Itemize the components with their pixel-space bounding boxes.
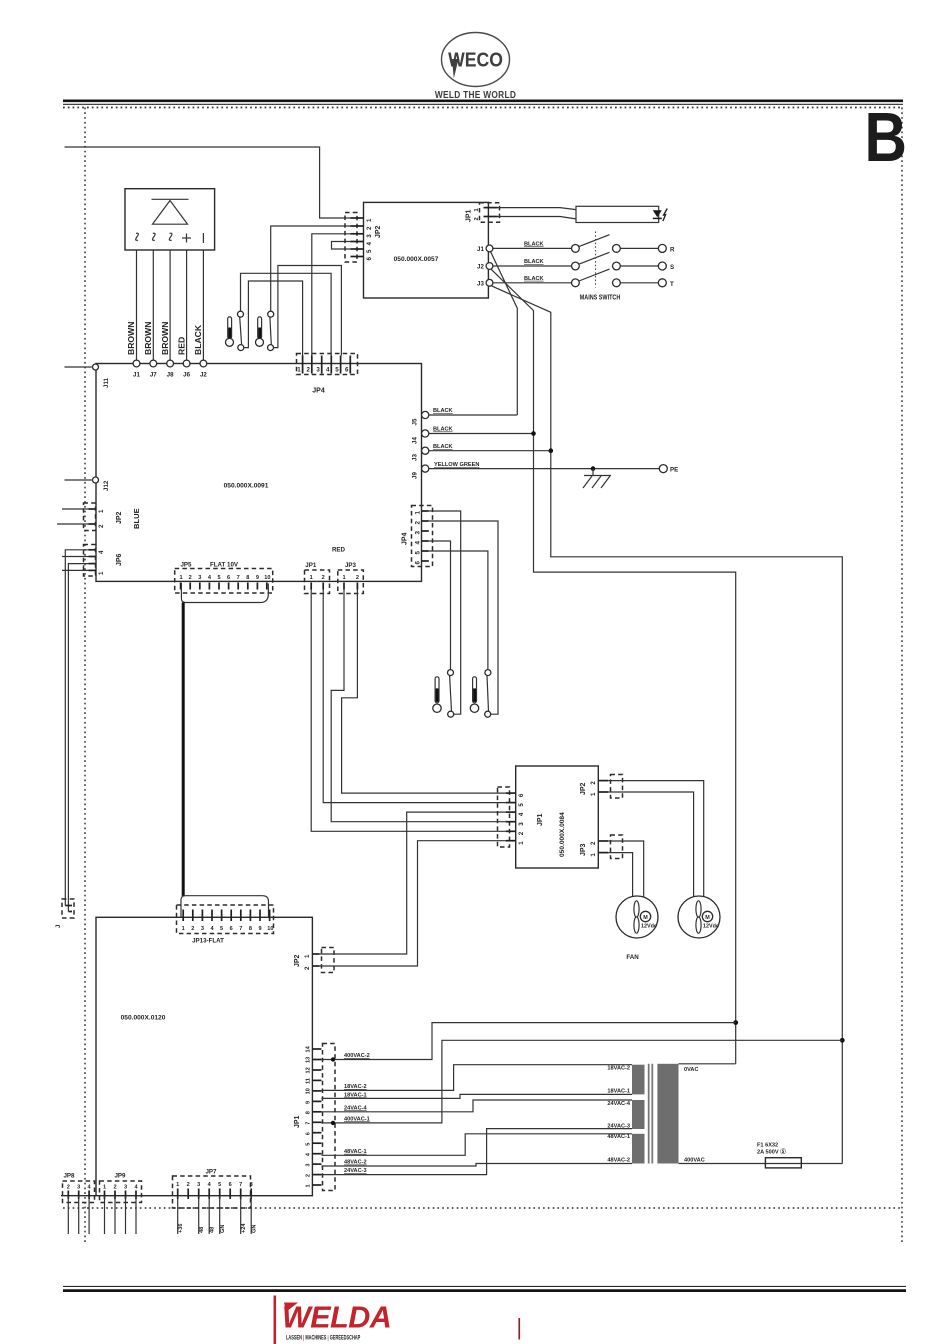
wire J2-0057 down to 0VAC riser [491,269,736,1064]
wire J3-0057 down to 400VAC riser [491,286,843,1164]
svg-text:2: 2 [415,521,422,525]
thermal switch ST2 thermometer [256,317,264,346]
svg-text:4: 4 [415,541,422,545]
wire 24VAC-4 [321,1100,632,1112]
terminal S [620,265,658,267]
svg-text:B: B [865,97,907,176]
wire JP2-0091 pin2 stub [57,523,89,525]
svg-text:5: 5 [218,1182,221,1188]
wire JP6 pin1 to left bundle [62,569,89,571]
svg-text:5: 5 [335,367,339,374]
svg-text:JP2: JP2 [116,511,123,524]
ribbon cable JP5 to JP13 [182,603,185,897]
svg-text:2: 2 [366,226,373,230]
terminal J2 board0057 right [486,263,493,270]
red fold mark center bottom [518,1318,520,1340]
fan M2 [678,896,720,938]
svg-text:2: 2 [356,575,359,581]
svg-text:YELLOW GREEN: YELLOW GREEN [434,462,479,468]
jumper loop JP2-0057 pins4-5 [332,242,355,250]
svg-text:J: J [55,924,62,928]
svg-text:1: 1 [590,853,597,857]
connector JP2 board0057 left [345,213,357,263]
wire 48VAC-1 [321,1134,632,1156]
connector JP2 board0120 right [322,948,335,973]
svg-text:18VAC-1: 18VAC-1 [344,1092,367,1098]
wire J2 to switch pole S [493,265,572,267]
svg-text:050.000X.0084: 050.000X.0084 [559,812,566,857]
svg-text:WELD THE WORLD: WELD THE WORLD [435,89,516,100]
svg-text:JP2: JP2 [294,954,301,967]
svg-text:6: 6 [415,561,422,565]
svg-text:1: 1 [98,509,105,513]
svg-text:BLACK: BLACK [193,324,203,355]
wire 400VAC through fuse [679,1163,843,1165]
mains switch linkage dotted [595,232,597,288]
connector JP6 board0091 left [89,550,97,571]
svg-text:J7: J7 [150,372,157,379]
thermal switch ST3 contact [448,670,454,676]
svg-text:2: 2 [306,1174,312,1177]
svg-text:2: 2 [322,575,325,581]
svg-text:400VAC-1: 400VAC-1 [344,1116,370,1122]
svg-text:J12: J12 [103,480,110,491]
svg-text:J3: J3 [477,280,484,287]
ground symbol PE [583,469,611,488]
svg-text:6: 6 [230,926,233,932]
svg-text:JP3: JP3 [580,843,587,856]
svg-text:5: 5 [220,926,223,932]
wire J9 YELLOW GREEN to PE [429,468,660,470]
svg-text:18VAC-1: 18VAC-1 [607,1088,630,1094]
svg-text:J1: J1 [477,246,484,253]
wire J3 BLACK [429,450,551,452]
transformer T1 secondary winding 18VAC [632,1065,645,1095]
svg-text:2: 2 [474,217,480,220]
svg-text:F1 6X32: F1 6X32 [757,1143,778,1149]
svg-text:JP4: JP4 [402,532,409,545]
winding labels [607,1066,630,1164]
junction dot 400VAC-2 join [733,1020,738,1025]
svg-text:4: 4 [98,550,105,554]
svg-text:9: 9 [256,575,259,581]
svg-text:JP3: JP3 [345,562,357,569]
wire 0VAC to riser [679,1063,736,1065]
svg-text:J3: J3 [412,454,419,461]
connector JP1 board0091 bottom [305,570,330,594]
svg-text:BLACK: BLACK [433,444,453,450]
svg-text:10: 10 [264,575,270,581]
svg-text:JP4: JP4 [312,388,325,395]
svg-text:JP1: JP1 [466,209,473,222]
svg-text:24VAC-4: 24VAC-4 [344,1105,367,1111]
svg-text:RED: RED [332,547,346,554]
thermal switch ST3 thermometer [433,677,441,713]
wire 48VAC-2 [321,1164,632,1167]
svg-text:10: 10 [267,926,273,932]
mains switch pole S [572,262,580,270]
board0120 bottom edge extension [61,1195,96,1197]
wire JP4right pin5 to ST4 upper [429,551,488,670]
wire mains input to JP2-0057 pin1 [65,147,351,218]
svg-text:BLACK: BLACK [433,408,453,414]
svg-text:JP7: JP7 [205,1169,217,1176]
page dotted border bottom [63,1207,903,1209]
svg-text:2: 2 [590,781,597,785]
indicator lamp H1 [576,206,659,222]
svg-text:J1: J1 [133,372,140,379]
svg-text:3: 3 [77,1185,80,1191]
wire rectifier minus to J2 [202,250,204,360]
svg-text:5: 5 [415,551,422,555]
wire 0084 JP2 pin1 to fan M2 [608,792,693,898]
svg-text:3: 3 [306,1163,312,1166]
svg-text:0VAC: 0VAC [684,1067,699,1073]
svg-text:6: 6 [366,257,373,261]
svg-text:JP8: JP8 [63,1173,75,1180]
svg-text:J11: J11 [103,377,110,388]
wire JP3-0091 pin1 to 0084 JP1 pin3 [331,590,506,822]
svg-text:48VAC-2: 48VAC-2 [344,1160,367,1166]
svg-text:1: 1 [179,575,182,581]
bottom double rule [63,1285,906,1287]
wire 0084 JP3 pin2 to fan M1 [608,841,643,898]
svg-text:6: 6 [229,1182,232,1188]
terminal J3 board0057 right [486,279,493,286]
svg-text:BLACK: BLACK [524,241,544,247]
connector JP2 board0091 left [89,509,97,524]
svg-text:BROWN: BROWN [126,322,136,355]
svg-text:2: 2 [304,966,311,970]
svg-text:18VAC-2: 18VAC-2 [607,1066,630,1072]
connector JP1 board0084 left [498,787,510,847]
svg-text:5: 5 [366,249,373,253]
svg-text:6: 6 [227,575,230,581]
wire ST1 upper to JP4top pin4 [241,273,332,355]
wire JP2-0120 pin1 riser to 0084 JP1 pin4 [320,812,506,954]
connector JP5 FLAT 10V board0091 bottom [175,569,273,594]
svg-text:8: 8 [246,575,249,581]
page dotted border top [63,107,903,109]
connector JP4 board0091 top [297,354,358,375]
terminal J9 on board right [422,465,429,472]
wire JP6 pin3 to left bundle [62,556,89,558]
svg-text:1: 1 [98,571,105,575]
svg-text:2: 2 [191,926,194,932]
svg-text:2: 2 [306,367,310,374]
connector JP9 board0120 bottom [100,1181,142,1203]
svg-text:2A 500V Ⓢ: 2A 500V Ⓢ [757,1148,786,1156]
connector JP2 board0084 right [611,775,623,799]
wire J3 to switch pole T [493,282,572,284]
svg-text:13: 13 [306,1057,312,1063]
wire JP4right pin4 to ST3 upper [429,541,451,670]
svg-text:3: 3 [316,367,320,374]
wires JP9 pins down [105,1196,137,1234]
svg-text:2: 2 [189,575,192,581]
connector JP3 board0091 bottom [338,570,364,594]
board U2 050.000X.0057 [364,202,489,298]
svg-text:050.000X.0120: 050.000X.0120 [121,1015,166,1022]
wire 0084 JP2 pin2 to fan M2 [608,781,703,898]
connector JP13-FLAT board0120 top [181,896,269,918]
svg-text:2: 2 [518,831,525,835]
wire 24VAC-3 [321,1129,632,1175]
connector JP1 board0120 right [323,1044,336,1191]
JP5 ribbon cable outline [181,583,268,603]
wire ST2 lower to JP4top pin5 [274,266,342,356]
wire ST1 lower to JP4top pin1 [244,281,303,356]
junction dot J3 tap [549,448,554,453]
svg-text:7: 7 [239,1182,242,1188]
svg-text:RED: RED [176,337,186,355]
wire JP6 pin2 to left bundle [68,564,88,912]
mains switch pole R [572,245,580,253]
wire rectifier plus to J6 [186,250,188,360]
svg-text:5: 5 [518,803,525,807]
svg-text:M: M [643,915,648,921]
wire JP4right pin1 to ST3 lower [429,511,461,714]
svg-text:6: 6 [345,367,349,374]
svg-text:+24: +24 [241,1223,247,1233]
rectifier plus terminal [182,234,191,243]
svg-text:12Vdc: 12Vdc [641,924,657,930]
svg-text:18VAC-2: 18VAC-2 [344,1084,367,1090]
svg-text:48: 48 [199,1227,205,1233]
wire 400VAC-2 [321,1023,735,1060]
svg-text:3: 3 [415,531,422,535]
svg-text:8: 8 [306,1111,312,1114]
svg-text:050.000X.0057: 050.000X.0057 [394,256,439,263]
svg-text:1: 1 [182,926,185,932]
svg-text:3: 3 [518,822,525,826]
svg-text:3: 3 [366,234,373,238]
junction dot 400VAC-1 join [840,1038,845,1043]
wire JP2-0091 pin1 stub [62,508,89,510]
wire 18VAC-1 [321,1094,632,1098]
svg-text:JP6: JP6 [116,553,123,566]
wire rectifier AC1 to J1 [136,250,138,360]
svg-text:24VAC-4: 24VAC-4 [607,1101,630,1107]
svg-text:10: 10 [306,1088,312,1094]
svg-text:1: 1 [366,218,373,222]
svg-text:BLACK: BLACK [433,427,453,433]
svg-text:3: 3 [124,1185,127,1191]
terminal J1 board0057 right [486,245,493,252]
wires JP7 pins down with labels [178,1196,252,1234]
wire 400VAC-1 [321,1040,842,1123]
thermal switch ST2 contact [268,311,274,317]
svg-text:BLUE: BLUE [132,508,141,529]
svg-text:JP2: JP2 [375,225,382,238]
svg-text:JP1: JP1 [294,1115,301,1128]
svg-text:2: 2 [187,1182,190,1188]
terminal PE [659,465,667,473]
page dotted border left [84,108,86,1244]
svg-text:BROWN: BROWN [143,322,153,355]
rectifier AC terminal squiggle 2 [152,233,156,240]
svg-text:4: 4 [326,367,330,374]
terminal J1 on board top [133,360,140,367]
svg-text:7: 7 [237,575,240,581]
svg-text:1: 1 [310,575,313,581]
svg-text:5: 5 [306,1143,312,1146]
svg-text:4: 4 [518,812,525,816]
rectifier AC terminal squiggle 3 [169,233,173,240]
svg-text:24VAC-3: 24VAC-3 [344,1168,367,1174]
svg-text:48VAC-2: 48VAC-2 [607,1158,630,1164]
wire JP4right pin2 to ST4 lower [429,521,498,714]
svg-text:1: 1 [415,511,422,515]
svg-text:4: 4 [366,242,373,246]
wire JP1-0091 pin2 to 0084 JP1 pin5 [323,590,506,803]
transformer core [648,1064,650,1164]
board U1 050.000X.0091 [96,364,422,582]
svg-text:JP2: JP2 [580,782,587,795]
connector JP8 board0120 bottom [63,1181,95,1203]
svg-text:BROWN: BROWN [160,322,170,355]
WECO logo ellipse [442,33,510,87]
fan M1 [616,896,658,938]
svg-text:2: 2 [590,841,597,845]
svg-text:JP9: JP9 [114,1173,126,1180]
svg-text:JP13-FLAT: JP13-FLAT [192,938,224,945]
mains switch pole T [572,279,580,287]
wire JP4top pin2 to JP2-0057 pin3 [312,234,351,356]
rectifier AC terminal squiggle 1 [135,233,139,240]
transformer T1 secondary winding 24VAC [632,1100,645,1129]
WELDA logo wordmark [282,1301,391,1335]
terminal J6 on board top [183,360,190,367]
svg-text:S: S [670,264,674,271]
terminal J7 on board top [150,360,157,367]
connector JP4 board0091 right [412,506,433,567]
svg-text:M: M [705,915,710,921]
wire J5 BLACK [429,414,518,416]
svg-text:9: 9 [258,926,261,932]
svg-text:JP5: JP5 [180,562,192,569]
svg-text:JP1: JP1 [537,813,544,826]
wire JP1-0057 to lamp (pair) [498,208,577,210]
wire rectifier AC2 to J7 [152,250,154,360]
svg-text:+36: +36 [178,1224,184,1234]
svg-text:7: 7 [239,926,242,932]
svg-text:1: 1 [306,1184,312,1187]
rectifier diode symbol [152,199,189,224]
svg-text:7: 7 [306,1122,312,1125]
wire 18VAC-2 [321,1065,632,1091]
terminal T [620,282,658,284]
thermal switch ST1 thermometer [226,317,234,346]
svg-text:1: 1 [176,1182,179,1188]
title block top double rule [63,100,903,103]
svg-text:J8: J8 [167,372,174,379]
junction dot ground tap [591,466,596,471]
svg-text:2: 2 [113,1185,116,1191]
wire rectifier AC3 to J8 [169,250,171,360]
svg-text:2: 2 [67,1185,70,1191]
connector J plug at left bundle end [65,906,72,912]
svg-text:GN: GN [220,1225,226,1233]
svg-text:400VAC-2: 400VAC-2 [344,1053,370,1059]
svg-text:14: 14 [306,1045,312,1052]
svg-text:PE: PE [670,467,678,474]
board U4 050.000X.0084 [516,766,599,868]
terminal R [620,247,658,249]
connector JP1 board0057 top [480,203,500,223]
svg-text:11: 11 [306,1078,312,1084]
svg-text:050.000X.0091: 050.000X.0091 [224,483,269,490]
terminal J2 on board top [200,360,207,367]
svg-text:6: 6 [306,1132,312,1135]
svg-text:48VAC-1: 48VAC-1 [607,1134,630,1140]
svg-text:J6: J6 [183,372,190,379]
terminal J12 on board left [65,479,92,481]
WECO logo text [448,49,503,78]
wire J1-0057 down to J5 [491,252,518,416]
svg-text:1: 1 [297,367,301,374]
connector JP3 board0084 right [611,835,623,859]
svg-text:8: 8 [249,926,252,932]
fuse F1 [765,1158,801,1168]
wire JP2-0120 pin2 riser to 0084 JP1 pin1 [320,841,506,966]
svg-text:R: R [670,246,675,253]
wires JP8 pins down [68,1196,89,1234]
svg-text:1: 1 [590,792,597,796]
svg-text:J2: J2 [200,372,207,379]
svg-text:3: 3 [201,926,204,932]
svg-text:2: 2 [98,524,105,528]
wire J1 to switch pole R [493,247,572,249]
svg-text:3: 3 [198,575,201,581]
svg-text:9: 9 [306,1101,312,1104]
svg-text:MAINS SWITCH: MAINS SWITCH [580,294,621,302]
terminal J8 on board top [167,360,174,367]
svg-text:1: 1 [474,208,480,211]
svg-text:1: 1 [342,575,345,581]
svg-text:WELDA: WELDA [282,1301,391,1335]
svg-text:T: T [670,281,674,288]
svg-text:J2: J2 [477,264,484,271]
svg-text:6: 6 [518,793,525,797]
rectifier bridge box [125,189,215,250]
terminal J4 on board right [422,430,429,437]
svg-text:48: 48 [210,1227,216,1233]
svg-text:JP1: JP1 [305,562,317,569]
thermal switch ST4 contact [485,670,491,676]
svg-text:12: 12 [306,1067,312,1073]
board U3 050.000X.0120 [96,917,312,1195]
junction dot J4 tap [531,431,536,436]
svg-text:FAN: FAN [626,954,639,961]
wire ST2 upper to JP2-0057 pin2 [271,226,351,311]
wire 0084 JP3 pin1 to fan M1 [608,853,632,899]
WELDA logo red bar [274,1296,277,1344]
svg-text:48VAC-1: 48VAC-1 [344,1149,367,1155]
thermal switch ST4 thermometer [470,677,478,713]
page dotted border right [901,108,903,1244]
svg-text:400VAC: 400VAC [684,1158,705,1164]
svg-text:J4: J4 [412,437,419,444]
svg-text:5: 5 [217,575,220,581]
svg-text:BLACK: BLACK [524,259,544,265]
rectifier minus terminal [202,233,204,243]
transformer T1 secondary winding 48VAC [632,1134,645,1164]
svg-text:BLACK: BLACK [524,276,544,282]
svg-text:1: 1 [304,954,311,958]
terminal J3 on board right [422,447,429,454]
wire J4 BLACK [429,433,534,435]
